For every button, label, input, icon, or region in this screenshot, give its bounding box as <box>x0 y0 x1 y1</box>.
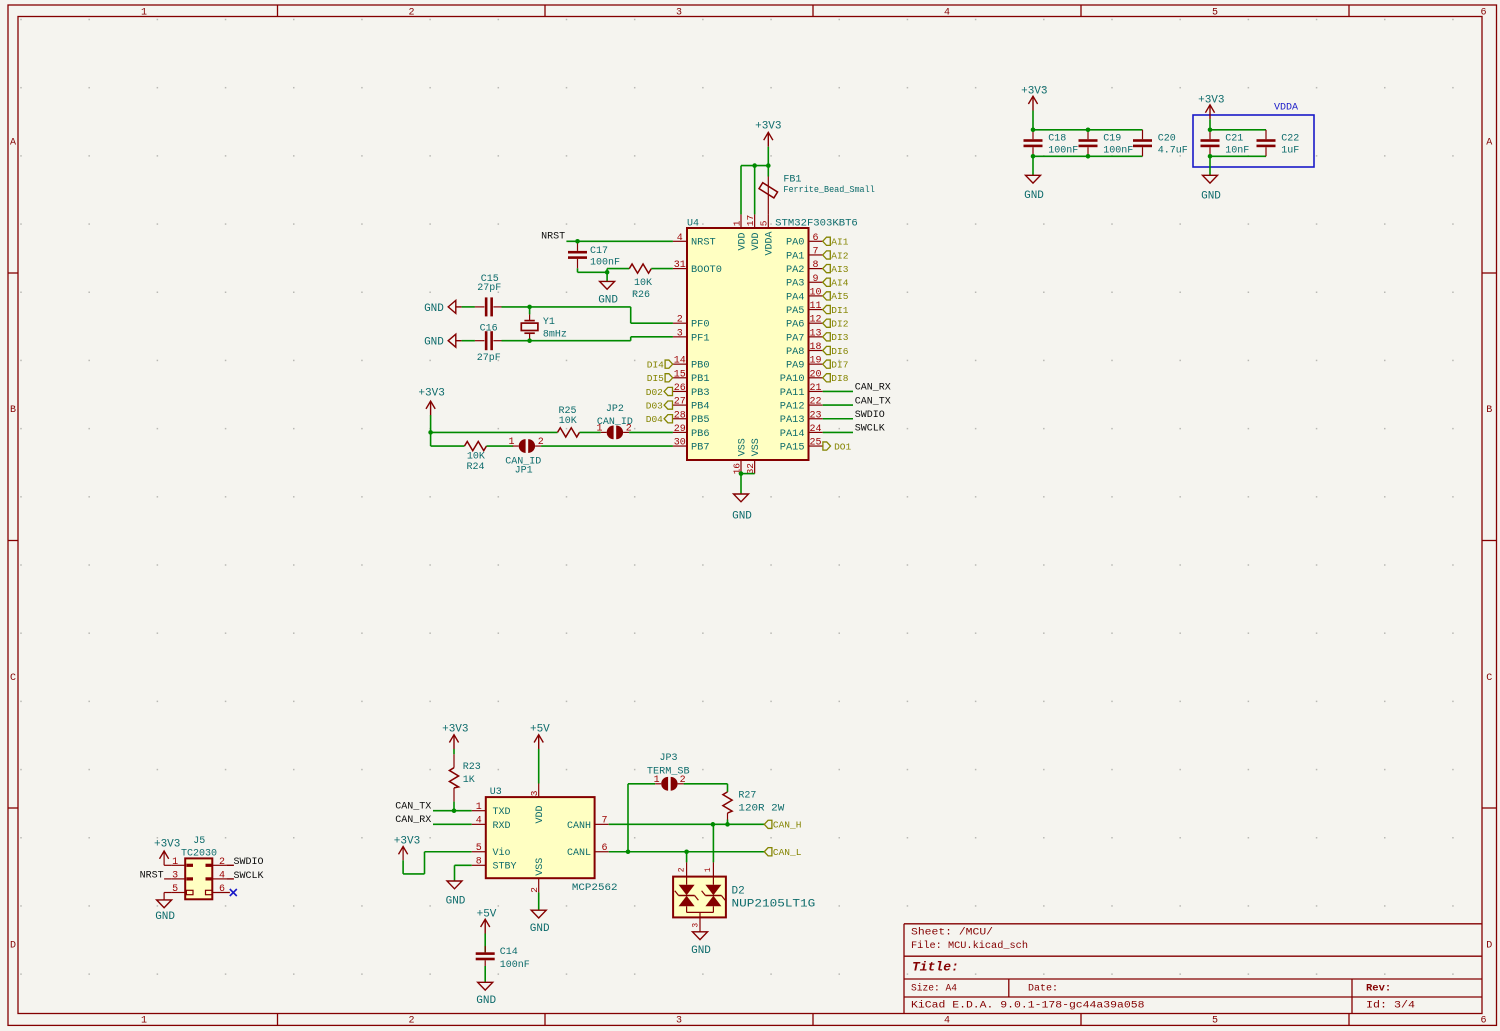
svg-text:PA11: PA11 <box>780 387 805 399</box>
svg-text:13: 13 <box>809 328 821 339</box>
svg-text:MCP2562: MCP2562 <box>572 883 618 894</box>
svg-text:JP1: JP1 <box>515 466 533 477</box>
svg-text:PA2: PA2 <box>786 264 805 276</box>
svg-text:CAN_ID: CAN_ID <box>597 417 633 428</box>
svg-text:VDDA: VDDA <box>765 231 776 255</box>
svg-text:7: 7 <box>601 816 607 827</box>
svg-text:7: 7 <box>812 246 818 257</box>
svg-text:CANH: CANH <box>567 821 591 832</box>
svg-text:+3V3: +3V3 <box>394 836 420 848</box>
svg-text:2: 2 <box>677 867 686 872</box>
svg-text:3: 3 <box>172 871 178 882</box>
svg-text:PA3: PA3 <box>786 278 805 290</box>
svg-text:NRST: NRST <box>140 870 164 881</box>
svg-text:1: 1 <box>141 7 147 18</box>
svg-text:PA8: PA8 <box>786 346 805 358</box>
svg-text:PF1: PF1 <box>691 332 710 344</box>
svg-text:VDD: VDD <box>737 232 748 250</box>
svg-text:15: 15 <box>674 369 686 380</box>
svg-text:PB5: PB5 <box>691 414 710 426</box>
svg-text:CANL: CANL <box>567 848 591 859</box>
svg-text:SWCLK: SWCLK <box>234 871 264 882</box>
svg-text:NRST: NRST <box>691 237 716 249</box>
svg-text:Size: A4: Size: A4 <box>911 983 957 995</box>
svg-text:1uF: 1uF <box>1281 146 1299 157</box>
svg-text:RXD: RXD <box>493 821 511 832</box>
svg-text:VSS: VSS <box>751 438 762 456</box>
svg-text:TERM_SB: TERM_SB <box>647 767 690 778</box>
svg-text:100nF: 100nF <box>1048 146 1078 157</box>
svg-text:PB3: PB3 <box>691 387 710 399</box>
svg-text:11: 11 <box>809 301 821 312</box>
svg-text:C19: C19 <box>1103 134 1121 145</box>
svg-text:VDDA: VDDA <box>1274 103 1298 114</box>
svg-text:10nF: 10nF <box>1225 146 1249 157</box>
svg-text:18: 18 <box>809 342 821 353</box>
svg-text:File: MCU.kicad_sch: File: MCU.kicad_sch <box>911 940 1028 952</box>
svg-text:21: 21 <box>809 383 821 394</box>
svg-text:VDD: VDD <box>535 805 546 823</box>
svg-text:VSS: VSS <box>535 858 546 876</box>
svg-text:28: 28 <box>674 410 686 421</box>
svg-text:STM32F303KBT6: STM32F303KBT6 <box>775 218 858 229</box>
svg-text:R23: R23 <box>463 762 481 773</box>
svg-text:4: 4 <box>476 816 482 827</box>
svg-text:D03: D03 <box>646 400 663 411</box>
svg-text:PA1: PA1 <box>786 250 805 262</box>
svg-text:+3V3: +3V3 <box>442 723 468 735</box>
svg-text:PA12: PA12 <box>780 401 805 413</box>
svg-text:J5: J5 <box>193 836 205 847</box>
svg-text:C20: C20 <box>1158 134 1176 145</box>
svg-text:25: 25 <box>809 438 821 449</box>
svg-text:1: 1 <box>172 857 178 868</box>
svg-text:BOOT0: BOOT0 <box>691 264 722 276</box>
svg-text:GND: GND <box>446 895 466 907</box>
svg-text:8: 8 <box>476 857 482 868</box>
svg-text:D: D <box>10 940 16 951</box>
svg-text:PF0: PF0 <box>691 319 710 331</box>
svg-text:CAN_RX: CAN_RX <box>855 383 891 394</box>
svg-text:GND: GND <box>598 294 618 306</box>
svg-text:STBY: STBY <box>493 862 517 873</box>
svg-text:6: 6 <box>812 233 818 244</box>
svg-text:A: A <box>1486 138 1492 149</box>
svg-text:DO1: DO1 <box>834 441 851 452</box>
svg-text:AI5: AI5 <box>831 291 848 302</box>
svg-text:AI4: AI4 <box>831 278 848 289</box>
svg-text:17: 17 <box>745 215 756 226</box>
svg-text:27pF: 27pF <box>477 283 501 294</box>
svg-text:PB0: PB0 <box>691 360 710 372</box>
svg-text:9: 9 <box>812 274 818 285</box>
svg-text:29: 29 <box>674 424 686 435</box>
svg-text:TXD: TXD <box>493 807 511 818</box>
svg-text:6: 6 <box>1480 1016 1486 1027</box>
svg-text:GND: GND <box>476 995 496 1007</box>
svg-text:CAN_RX: CAN_RX <box>395 815 431 826</box>
svg-text:Ferrite_Bead_Small: Ferrite_Bead_Small <box>783 184 875 195</box>
svg-text:10K: 10K <box>559 416 577 427</box>
svg-text:AI2: AI2 <box>831 250 848 261</box>
svg-text:12: 12 <box>809 315 821 326</box>
svg-text:DI3: DI3 <box>831 332 848 343</box>
svg-text:GND: GND <box>732 511 752 523</box>
svg-text:23: 23 <box>809 410 821 421</box>
svg-text:100nF: 100nF <box>590 258 620 269</box>
svg-text:+5V: +5V <box>530 723 550 735</box>
svg-text:DI1: DI1 <box>831 305 848 316</box>
svg-text:5: 5 <box>476 843 482 854</box>
svg-text:1: 1 <box>141 1016 147 1027</box>
svg-text:27: 27 <box>674 397 686 408</box>
svg-text:100nF: 100nF <box>1103 146 1133 157</box>
svg-text:19: 19 <box>809 356 821 367</box>
svg-text:30: 30 <box>674 438 686 449</box>
svg-text:AI1: AI1 <box>831 237 848 248</box>
svg-text:SWDIO: SWDIO <box>855 410 885 421</box>
svg-text:GND: GND <box>1201 190 1221 202</box>
svg-text:2: 2 <box>408 1016 414 1027</box>
svg-text:Rev:: Rev: <box>1366 983 1391 995</box>
svg-text:+3V3: +3V3 <box>755 120 781 132</box>
svg-text:6: 6 <box>601 843 607 854</box>
svg-text:C: C <box>1486 673 1492 684</box>
svg-text:JP2: JP2 <box>606 404 624 415</box>
svg-text:5: 5 <box>1212 7 1218 18</box>
svg-text:DI5: DI5 <box>647 373 664 384</box>
svg-text:C16: C16 <box>480 324 498 335</box>
svg-text:+3V3: +3V3 <box>154 838 180 850</box>
svg-text:KiCad E.D.A. 9.0.1-178-gc44a39: KiCad E.D.A. 9.0.1-178-gc44a39a058 <box>911 999 1145 1011</box>
svg-text:Vio: Vio <box>493 847 511 859</box>
svg-text:A: A <box>10 138 16 149</box>
svg-text:CAN_TX: CAN_TX <box>855 396 891 407</box>
svg-text:2: 2 <box>408 7 414 18</box>
svg-text:5: 5 <box>1212 1016 1218 1027</box>
svg-text:PB1: PB1 <box>691 373 710 385</box>
svg-text:C17: C17 <box>590 246 608 257</box>
svg-text:GND: GND <box>691 945 711 957</box>
svg-text:14: 14 <box>674 356 686 367</box>
svg-text:3: 3 <box>529 790 540 796</box>
svg-text:1: 1 <box>476 802 482 813</box>
svg-text:4: 4 <box>677 233 683 244</box>
svg-text:U3: U3 <box>490 787 502 798</box>
svg-text:26: 26 <box>674 383 686 394</box>
svg-text:10: 10 <box>809 287 821 298</box>
svg-text:2: 2 <box>529 887 540 893</box>
svg-text:CAN_TX: CAN_TX <box>395 802 431 813</box>
svg-text:PA14: PA14 <box>780 428 805 440</box>
svg-text:DI2: DI2 <box>831 319 848 330</box>
svg-text:5: 5 <box>759 220 770 226</box>
svg-text:D04: D04 <box>646 414 663 425</box>
svg-text:1K: 1K <box>463 775 475 786</box>
svg-text:27pF: 27pF <box>477 353 501 364</box>
svg-text:Sheet: /MCU/: Sheet: /MCU/ <box>911 927 993 939</box>
svg-text:JP3: JP3 <box>659 753 677 764</box>
svg-text:Title:: Title: <box>912 960 959 975</box>
svg-text:3: 3 <box>676 7 682 18</box>
svg-text:SWDIO: SWDIO <box>234 857 264 868</box>
svg-text:31: 31 <box>674 260 686 271</box>
svg-text:+3V3: +3V3 <box>1021 86 1047 98</box>
svg-text:PA15: PA15 <box>780 441 805 453</box>
svg-text:DI8: DI8 <box>831 373 848 384</box>
svg-text:20: 20 <box>809 369 821 380</box>
svg-text:SWCLK: SWCLK <box>855 424 885 435</box>
svg-text:AI3: AI3 <box>831 264 848 275</box>
svg-text:GND: GND <box>424 337 444 349</box>
svg-text:PA7: PA7 <box>786 332 805 344</box>
svg-text:4.7uF: 4.7uF <box>1158 146 1188 157</box>
svg-text:DI4: DI4 <box>647 359 664 370</box>
svg-text:B: B <box>1486 405 1492 416</box>
svg-text:Id: 3/4: Id: 3/4 <box>1366 999 1415 1011</box>
svg-text:B: B <box>10 405 16 416</box>
svg-text:C: C <box>10 673 16 684</box>
svg-text:GND: GND <box>1024 190 1044 202</box>
svg-text:2: 2 <box>677 315 683 326</box>
svg-text:PA0: PA0 <box>786 237 805 249</box>
svg-text:+3V3: +3V3 <box>1198 94 1224 106</box>
svg-text:R26: R26 <box>632 290 650 301</box>
svg-text:10K: 10K <box>634 278 652 289</box>
svg-text:6: 6 <box>1480 7 1486 18</box>
svg-text:GND: GND <box>530 923 550 935</box>
svg-text:1: 1 <box>508 437 514 448</box>
svg-text:CAN_H: CAN_H <box>773 820 802 831</box>
svg-text:32: 32 <box>745 463 756 475</box>
svg-text:2: 2 <box>219 857 225 868</box>
svg-text:3: 3 <box>676 1016 682 1027</box>
svg-text:2: 2 <box>538 437 544 448</box>
svg-text:Y1: Y1 <box>543 317 555 328</box>
svg-text:PA4: PA4 <box>786 291 805 303</box>
svg-text:CAN_L: CAN_L <box>773 847 802 858</box>
svg-text:GND: GND <box>424 303 444 315</box>
svg-text:6: 6 <box>219 884 225 895</box>
svg-text:C22: C22 <box>1281 134 1299 145</box>
svg-text:PB4: PB4 <box>691 401 710 413</box>
svg-text:C14: C14 <box>500 947 518 958</box>
svg-text:C18: C18 <box>1048 134 1066 145</box>
svg-text:D02: D02 <box>646 387 663 398</box>
svg-text:PB6: PB6 <box>691 428 710 440</box>
svg-text:24: 24 <box>809 424 821 435</box>
svg-text:22: 22 <box>809 397 821 408</box>
svg-text:NUP2105LT1G: NUP2105LT1G <box>732 899 816 911</box>
svg-text:D2: D2 <box>732 885 745 897</box>
svg-text:D: D <box>1486 940 1492 951</box>
svg-text:Date:: Date: <box>1028 984 1058 995</box>
svg-text:PA5: PA5 <box>786 305 805 317</box>
svg-text:5: 5 <box>172 884 178 895</box>
svg-text:C21: C21 <box>1225 134 1243 145</box>
svg-text:PA13: PA13 <box>780 414 805 426</box>
svg-text:8: 8 <box>812 260 818 271</box>
svg-text:8mHz: 8mHz <box>543 330 567 341</box>
svg-text:PB7: PB7 <box>691 441 710 453</box>
svg-text:PA6: PA6 <box>786 319 805 331</box>
svg-text:R24: R24 <box>466 462 484 473</box>
svg-text:VSS: VSS <box>737 438 748 456</box>
svg-text:R27: R27 <box>738 791 756 802</box>
svg-text:GND: GND <box>155 911 175 923</box>
svg-text:3: 3 <box>677 328 683 339</box>
svg-text:1: 1 <box>731 220 742 226</box>
svg-text:NRST: NRST <box>541 232 565 243</box>
svg-text:4: 4 <box>944 7 950 18</box>
svg-text:TC2030: TC2030 <box>181 849 217 860</box>
svg-text:VDD: VDD <box>751 232 762 250</box>
svg-text:PA9: PA9 <box>786 360 805 372</box>
svg-text:3: 3 <box>692 923 701 928</box>
svg-text:100nF: 100nF <box>500 960 530 971</box>
svg-text:120R 2W: 120R 2W <box>738 804 784 815</box>
svg-text:PA10: PA10 <box>780 373 805 385</box>
svg-text:+3V3: +3V3 <box>418 388 444 400</box>
svg-text:4: 4 <box>944 1016 950 1027</box>
svg-text:U4: U4 <box>687 218 699 229</box>
svg-text:DI7: DI7 <box>831 359 848 370</box>
svg-text:4: 4 <box>219 871 225 882</box>
svg-text:1: 1 <box>704 867 713 872</box>
svg-text:DI6: DI6 <box>831 346 848 357</box>
svg-text:+5V: +5V <box>477 908 497 920</box>
